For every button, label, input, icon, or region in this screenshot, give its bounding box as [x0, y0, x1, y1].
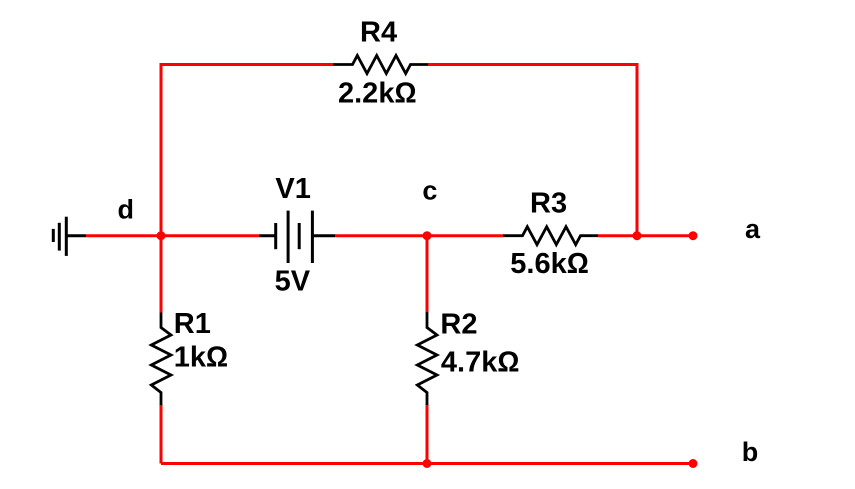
svg-text:R3: R3: [530, 188, 567, 220]
resistor R4: [333, 56, 428, 74]
junction bottom rail: [423, 459, 432, 468]
svg-text:5.6kΩ: 5.6kΩ: [510, 248, 589, 280]
svg-text:a: a: [745, 214, 761, 244]
svg-text:b: b: [742, 437, 759, 467]
svg-text:d: d: [118, 195, 135, 225]
wire node d to battery: [161, 234, 259, 237]
junction node d: [157, 231, 166, 240]
wire right vertical down to node a line: [636, 63, 639, 236]
svg-text:V1: V1: [275, 173, 310, 205]
svg-text:2.2kΩ: 2.2kΩ: [338, 77, 417, 109]
junction node c: [423, 231, 432, 240]
svg-text:4.7kΩ: 4.7kΩ: [441, 347, 520, 379]
resistor R1: [151, 313, 171, 406]
svg-text:R1: R1: [174, 308, 211, 340]
wire ground to node d: [86, 234, 161, 237]
wire R2 bottom to bottom rail: [426, 404, 429, 464]
wire bottom rail to terminal b: [161, 462, 693, 465]
resistor R2: [417, 312, 437, 405]
terminal a dot: [689, 231, 698, 240]
wire R4 to top right corner: [428, 63, 637, 66]
svg-text:R4: R4: [360, 17, 397, 49]
wire R3 to terminal a: [598, 234, 693, 237]
resistor R3: [503, 227, 598, 245]
wire top left to R4: [160, 63, 334, 66]
svg-text:R2: R2: [440, 309, 477, 341]
terminal b dot: [689, 459, 698, 468]
svg-text:5V: 5V: [275, 266, 311, 298]
wire node c down to R2: [426, 236, 429, 313]
wire R1 bottom to bottom rail: [160, 404, 163, 464]
junction right vertical: [633, 231, 642, 240]
svg-text:c: c: [422, 175, 437, 205]
wire node c to R3: [427, 234, 503, 237]
wire left vertical node d up to top: [160, 65, 163, 313]
battery V1: [259, 211, 335, 263]
svg-text:1kΩ: 1kΩ: [174, 341, 229, 373]
wire battery to node c: [335, 234, 427, 237]
ground: [53, 217, 86, 256]
